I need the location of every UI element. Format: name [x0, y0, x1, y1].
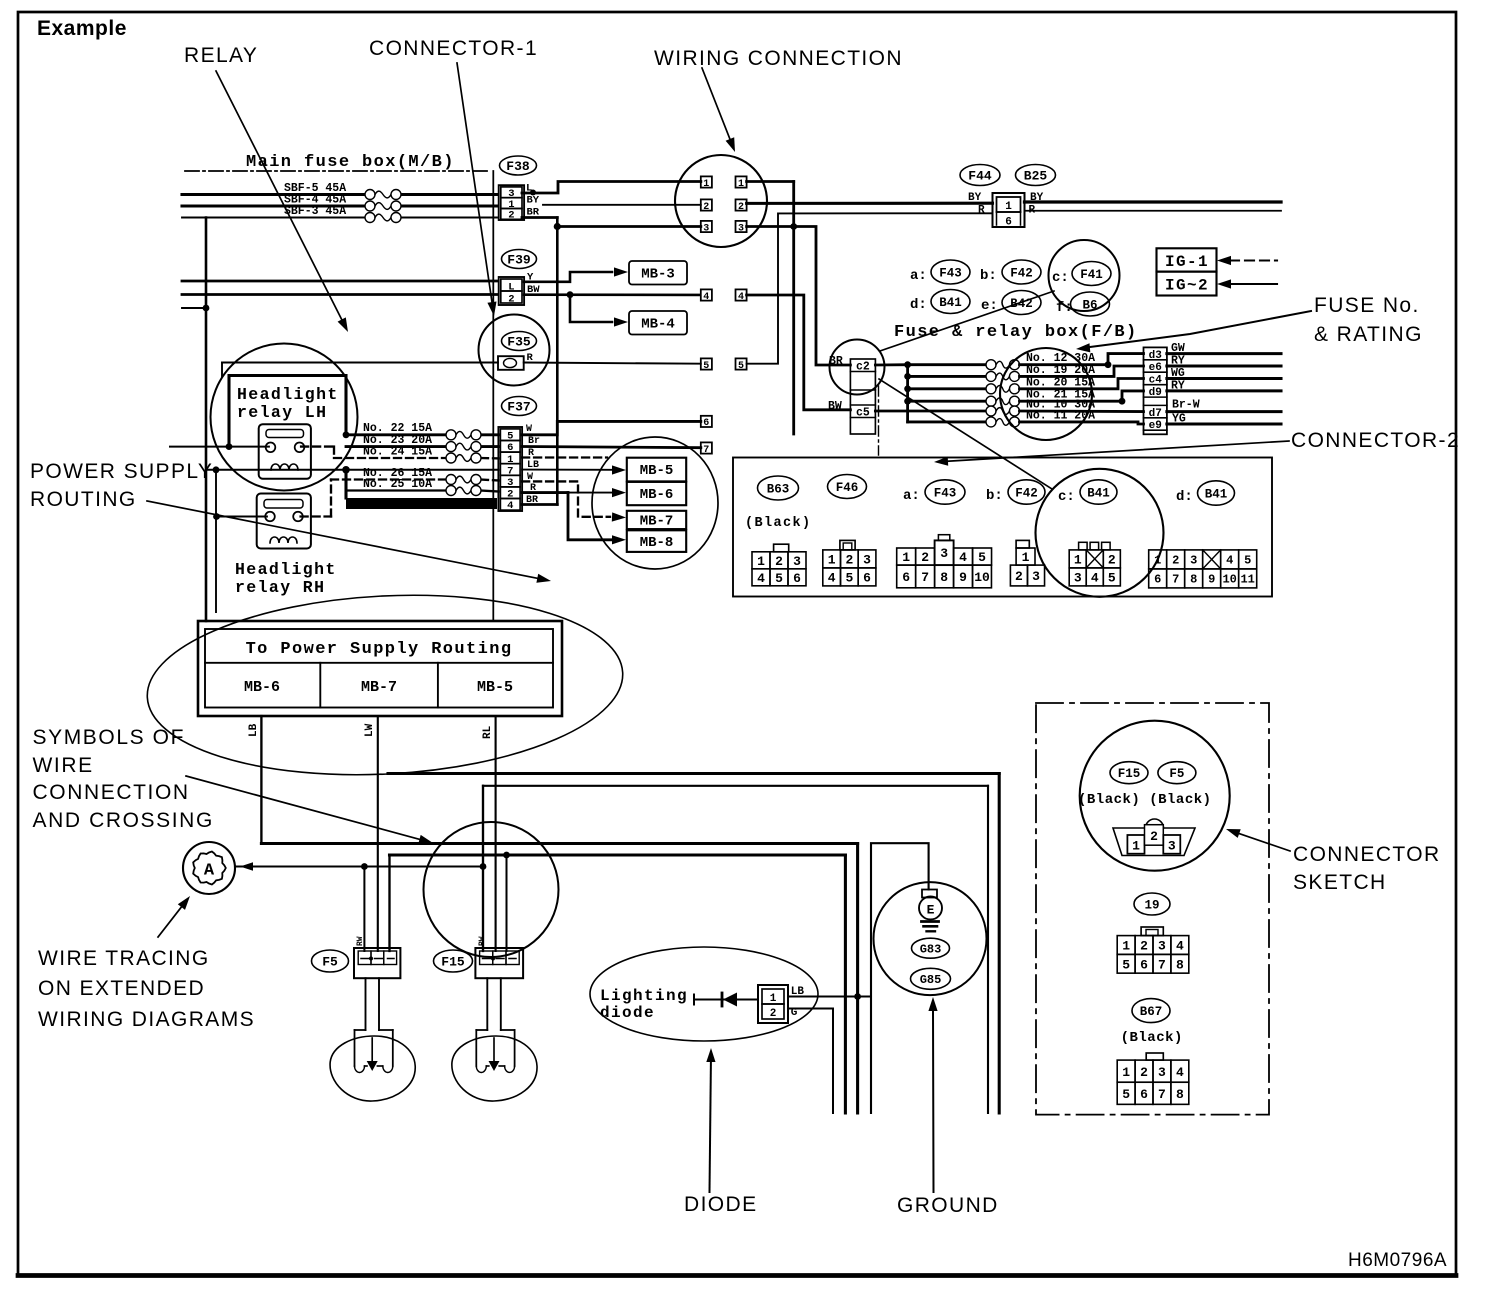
ellipse highlight lighting diode — [590, 947, 818, 1041]
wire row3 right to c2 — [747, 227, 851, 366]
svg-text:F5: F5 — [322, 955, 338, 970]
wire vertical coil feed — [213, 466, 220, 612]
svg-text:MB-3: MB-3 — [641, 267, 675, 283]
svg-text:Br-W: Br-W — [1172, 399, 1200, 412]
wire bus SBF-4 — [182, 204, 497, 207]
svg-text:No. 24 15A: No. 24 15A — [363, 446, 432, 459]
svg-text:4: 4 — [703, 292, 709, 303]
wire line1 — [388, 774, 999, 1114]
circle highlight c2 — [830, 340, 885, 395]
svg-text:1: 1 — [703, 179, 709, 190]
circle highlight connector-1 (F35) — [479, 315, 550, 386]
node box 7 left — [701, 442, 712, 455]
connector column line — [492, 171, 494, 621]
svg-text:5: 5 — [738, 361, 744, 372]
fuse No. 26 15A — [363, 467, 481, 485]
svg-text:6: 6 — [703, 418, 709, 429]
label RELAY — [184, 44, 258, 67]
svg-text:2: 2 — [703, 202, 709, 213]
svg-text:6: 6 — [1140, 957, 1148, 972]
svg-text:3: 3 — [738, 223, 744, 234]
svg-text:2: 2 — [508, 293, 514, 305]
pin diagram B41d — [1149, 550, 1257, 588]
figure number H6M0796A — [1348, 1250, 1447, 1271]
wire c2 to F/B — [875, 363, 907, 366]
svg-text:7: 7 — [703, 445, 709, 456]
wire No.26 row (dashed) — [331, 480, 498, 481]
svg-text:7: 7 — [921, 570, 929, 585]
svg-text:5: 5 — [1122, 957, 1130, 972]
svg-text:3: 3 — [940, 546, 948, 561]
svg-text:Headlight: Headlight — [235, 560, 337, 579]
wire row5 right to R line — [747, 213, 993, 363]
wire line3 — [261, 844, 857, 1114]
svg-text:e6: e6 — [1149, 362, 1162, 374]
connector 19 label — [1134, 893, 1170, 915]
svg-text:F39: F39 — [507, 253, 531, 268]
svg-text:1: 1 — [757, 554, 765, 569]
svg-text:d7: d7 — [1149, 408, 1162, 420]
svg-text:B67: B67 — [1140, 1005, 1163, 1019]
svg-text:1: 1 — [1154, 554, 1161, 568]
pin diagram B41c — [1069, 542, 1120, 586]
box MB-8 — [627, 530, 686, 552]
wire Br-W — [1167, 399, 1281, 412]
wire RL down — [482, 716, 496, 951]
wire pin3 dashed to MB-7 — [522, 481, 626, 521]
svg-text:DIODE: DIODE — [684, 1193, 758, 1216]
svg-text:6: 6 — [1140, 1087, 1148, 1102]
leader arrow WIRE TRACING — [158, 896, 190, 937]
heavy wire bar — [346, 470, 497, 509]
svg-text:AND CROSSING: AND CROSSING — [33, 809, 214, 832]
svg-text:10: 10 — [974, 570, 990, 585]
svg-text:3: 3 — [703, 223, 709, 234]
svg-text:4: 4 — [1091, 571, 1099, 586]
wire row5 left (R) — [524, 363, 701, 364]
pin diagram F46 — [823, 540, 876, 586]
wire line4 — [390, 855, 846, 1113]
svg-text:3: 3 — [1158, 1065, 1166, 1080]
box MB-4 — [629, 311, 687, 335]
circle highlight ground — [874, 882, 987, 995]
svg-text:3: 3 — [863, 553, 871, 568]
svg-text:RELAY: RELAY — [184, 44, 258, 67]
svg-text:WG: WG — [1171, 367, 1185, 380]
svg-text:2: 2 — [1172, 554, 1179, 568]
wire line2 — [483, 786, 988, 1113]
wire row1 left — [522, 182, 701, 196]
circle highlight relay — [211, 344, 358, 491]
fuse SBF-5 45A — [284, 182, 401, 200]
wire to F15 pin3 — [503, 852, 510, 951]
circle highlight c:F41 f:B6 — [1049, 240, 1120, 311]
diode symbol — [694, 993, 758, 1007]
wire No.23 row — [346, 445, 498, 448]
svg-text:RL: RL — [482, 725, 494, 739]
svg-text:WIRE: WIRE — [33, 754, 94, 777]
svg-text:Main fuse box(M/B): Main fuse box(M/B) — [246, 153, 455, 172]
svg-text:SKETCH: SKETCH — [1293, 871, 1387, 894]
svg-text:SBF-3 45A: SBF-3 45A — [284, 205, 346, 218]
wire labels LB G — [791, 986, 805, 1019]
wire fuse row No. 20 15A — [908, 376, 1144, 394]
label Main fuse box (M/B) — [246, 153, 455, 172]
wire relay LH coil row — [206, 466, 350, 474]
svg-text:RW: RW — [356, 936, 365, 946]
F/B feed vertical — [904, 361, 911, 422]
svg-text:2: 2 — [508, 210, 514, 222]
wire row7 left (Br) — [522, 447, 701, 448]
wire relay RH contact right (dashed) — [301, 480, 331, 517]
svg-text:ROUTING: ROUTING — [30, 488, 137, 511]
label CONNECTOR-2 — [1291, 429, 1460, 452]
connector sketch box (dash-dot) — [1036, 703, 1269, 1115]
connector F39 — [499, 250, 537, 306]
label FUSE No. & RATING — [1314, 294, 1423, 346]
svg-text:5: 5 — [775, 571, 783, 586]
pin diagram i9 — [1117, 927, 1189, 973]
pin diagram F43 — [897, 535, 992, 588]
svg-text:1: 1 — [1022, 550, 1030, 565]
connector-2 box — [733, 458, 1272, 597]
svg-text:MB-6: MB-6 — [640, 487, 674, 503]
fuse box 1/6 — [993, 193, 1025, 229]
svg-text:R: R — [978, 205, 985, 217]
wire bus to F39 pin L — [182, 280, 498, 283]
svg-text:WIRE TRACING: WIRE TRACING — [38, 947, 210, 970]
svg-text:4: 4 — [1226, 554, 1233, 568]
svg-text:1: 1 — [1122, 939, 1130, 954]
headlight relay LH outline box — [229, 376, 346, 447]
svg-text:G85: G85 — [920, 973, 942, 987]
node box 2 right — [736, 199, 747, 212]
svg-text:G83: G83 — [920, 943, 942, 957]
svg-text:3: 3 — [793, 554, 801, 569]
svg-text:Fuse & relay box(F/B): Fuse & relay box(F/B) — [894, 323, 1138, 342]
svg-text:(Black) (Black): (Black) (Black) — [1078, 792, 1212, 808]
svg-text:BR: BR — [829, 355, 843, 368]
svg-text:1: 1 — [738, 179, 744, 190]
svg-text:WIRING DIAGRAMS: WIRING DIAGRAMS — [38, 1008, 255, 1031]
connector F15 sketch label — [1110, 762, 1148, 784]
fuse No. 23 20A — [363, 434, 481, 452]
svg-text:F42: F42 — [1010, 267, 1033, 281]
svg-text:F37: F37 — [507, 400, 530, 415]
svg-text:7: 7 — [1172, 573, 1179, 587]
svg-text:3: 3 — [1190, 554, 1197, 568]
label DIODE — [684, 1193, 758, 1216]
wire row1 right — [747, 182, 798, 435]
svg-text:E: E — [927, 903, 935, 918]
svg-text:RY: RY — [1171, 355, 1185, 368]
node box 5 right — [736, 358, 747, 371]
wire bus SBF-5 — [182, 193, 497, 196]
svg-text:5: 5 — [1244, 554, 1251, 568]
svg-text:c4: c4 — [1149, 375, 1163, 387]
wire relay RH contact left — [217, 515, 267, 517]
title Example — [37, 17, 127, 40]
connector c:B41 — [1058, 480, 1117, 505]
link line c2 to connector-2 circle — [879, 379, 1052, 489]
svg-text:H6M0796A: H6M0796A — [1348, 1250, 1447, 1271]
wire coil row to pin 7 — [346, 469, 498, 471]
fuse SBF-3 45A — [284, 205, 401, 223]
circle highlight c:B41 — [1036, 469, 1164, 597]
svg-text:B63: B63 — [767, 483, 790, 497]
connector list d:B41 — [910, 290, 970, 314]
relay LH symbol — [259, 424, 311, 479]
svg-text:1: 1 — [1132, 839, 1140, 854]
connector B25 — [1016, 165, 1056, 186]
svg-text:(Black): (Black) — [745, 516, 812, 531]
wire relay LH contact right (dashed) — [301, 447, 334, 458]
label Headlight relay LH — [237, 385, 339, 422]
svg-text:F46: F46 — [836, 481, 859, 495]
svg-text:1: 1 — [902, 550, 910, 565]
ground G83 — [912, 938, 950, 958]
svg-text:9: 9 — [1208, 573, 1215, 587]
svg-text:SYMBOLS OF: SYMBOLS OF — [33, 726, 186, 749]
svg-text:F43: F43 — [939, 267, 962, 281]
node box 6 left — [701, 416, 712, 429]
svg-text:8: 8 — [1190, 573, 1197, 587]
svg-text:BW: BW — [828, 400, 842, 413]
svg-text:MB-5: MB-5 — [477, 679, 513, 696]
label Lighting diode — [600, 987, 688, 1022]
svg-text:4: 4 — [1176, 939, 1184, 954]
leader arrow CONNECTOR SKETCH — [1226, 829, 1290, 851]
svg-text:Lighting: Lighting — [600, 987, 688, 1005]
wire No.24 row (dashed) — [334, 457, 498, 460]
label SYMBOLS OF WIRE CONNECTION AND CROSSING — [33, 726, 214, 832]
svg-text:POWER SUPPLY: POWER SUPPLY — [30, 460, 213, 483]
svg-text:F35: F35 — [507, 335, 531, 350]
svg-text:1: 1 — [1005, 201, 1012, 213]
svg-text:5: 5 — [703, 361, 709, 372]
svg-text:6: 6 — [793, 571, 801, 586]
wire labels BR BW — [828, 355, 843, 413]
svg-text:4: 4 — [757, 571, 765, 586]
connector b:F42 — [986, 480, 1045, 504]
svg-text:B41: B41 — [939, 296, 962, 310]
wire diode G — [788, 1009, 833, 1114]
svg-text:1: 1 — [828, 553, 836, 568]
pin diagram B63 — [752, 544, 806, 586]
leader arrow GROUND — [928, 997, 937, 1192]
svg-text:GW: GW — [1171, 342, 1185, 355]
connector list f:B6 — [1056, 292, 1110, 316]
svg-text:d9: d9 — [1149, 387, 1162, 399]
svg-text:5: 5 — [845, 571, 853, 586]
fuse No. 25 10A — [363, 478, 481, 496]
svg-text:WIRING CONNECTION: WIRING CONNECTION — [654, 47, 903, 70]
svg-text:c5: c5 — [856, 407, 870, 420]
svg-text:2: 2 — [1015, 569, 1023, 584]
node box 1 right — [736, 176, 747, 189]
wire vertical left bus — [205, 218, 208, 622]
wire vertical BR net — [556, 218, 559, 505]
link line F41 to c2 — [880, 291, 1054, 351]
connector F37 — [498, 397, 536, 513]
wire R bus right — [1025, 210, 1282, 212]
connector F38 — [499, 156, 537, 222]
label CONNECTOR-1 — [369, 37, 538, 60]
ground bars — [922, 922, 939, 932]
connector F46 — [828, 475, 867, 499]
svg-text:MB-7: MB-7 — [361, 679, 397, 696]
F/B boundary dash — [878, 386, 880, 455]
svg-text:IG-1: IG-1 — [1165, 253, 1209, 271]
svg-text:relay LH: relay LH — [237, 403, 327, 422]
leader arrow RELAY — [216, 71, 348, 332]
wire relay LH contact left — [170, 443, 269, 450]
connector d:B41 — [1176, 481, 1235, 505]
wire c5 to F/B No.10 — [875, 410, 986, 413]
connector list b:F42 — [980, 260, 1041, 284]
svg-text:a:: a: — [910, 268, 927, 284]
wire row2 left — [543, 204, 701, 206]
wire fuse row No. 12 30A — [908, 352, 1144, 370]
wire pin4 row — [522, 503, 557, 506]
svg-text:1: 1 — [1074, 553, 1082, 568]
wire labels L BY BR — [526, 183, 540, 219]
svg-text:b:: b: — [980, 268, 997, 284]
svg-text:c:: c: — [1058, 489, 1075, 505]
svg-text:To Power Supply Routing: To Power Supply Routing — [246, 640, 513, 659]
svg-text:6: 6 — [1154, 573, 1161, 587]
pin diagram B67 — [1117, 1053, 1189, 1104]
svg-text:ON EXTENDED: ON EXTENDED — [38, 977, 205, 1000]
svg-text:F43: F43 — [934, 487, 957, 501]
svg-text:4: 4 — [1176, 1065, 1184, 1080]
svg-text:d3: d3 — [1149, 350, 1163, 362]
svg-text:2: 2 — [738, 202, 744, 213]
circle highlight wire crossing — [424, 822, 559, 957]
frame bottom emphasis — [18, 1273, 1456, 1278]
svg-text:9: 9 — [959, 570, 967, 585]
svg-text:e9: e9 — [1149, 420, 1162, 432]
svg-text:F15: F15 — [1118, 767, 1141, 781]
svg-text:MB-8: MB-8 — [640, 535, 674, 551]
svg-text:5: 5 — [1122, 1087, 1130, 1102]
leader arrow FUSE No. — [1076, 311, 1311, 352]
label CONNECTOR SKETCH — [1293, 843, 1441, 894]
svg-text:10: 10 — [1222, 573, 1236, 587]
wire GW — [1167, 342, 1281, 355]
svg-text:MB-5: MB-5 — [640, 463, 674, 479]
fuse No. 22 15A — [363, 422, 481, 440]
svg-text:Example: Example — [37, 17, 127, 40]
ellipse highlight power supply routing — [143, 584, 628, 787]
circle highlight wiring connection — [675, 155, 767, 247]
svg-text:Headlight: Headlight — [237, 385, 339, 404]
svg-text:19: 19 — [1144, 899, 1159, 913]
svg-text:a:: a: — [903, 488, 920, 504]
node box 4 left — [701, 289, 712, 302]
wire labels Y BW — [527, 272, 540, 297]
wire RY — [1167, 355, 1281, 368]
svg-text:1: 1 — [1122, 1065, 1130, 1080]
connector strip c2/c5 — [850, 359, 875, 434]
node box 5 left — [701, 358, 712, 371]
svg-text:4: 4 — [738, 292, 744, 303]
label Fuse & relay box (F/B) — [894, 323, 1138, 342]
box MB-7 — [627, 511, 686, 530]
svg-text:b:: b: — [986, 488, 1003, 504]
wire label R — [527, 352, 534, 364]
node box 4 right — [736, 289, 747, 302]
relay RH symbol — [257, 494, 311, 549]
wire R row — [222, 363, 498, 378]
connector list c:F41 — [1052, 262, 1111, 287]
svg-text:11: 11 — [1240, 573, 1254, 587]
svg-text:d:: d: — [1176, 489, 1193, 505]
node A wire-tracing symbol — [183, 842, 235, 894]
leader arrow POWER SUPPLY ROUTING — [147, 501, 551, 583]
connector diode 1/2 — [758, 985, 788, 1023]
svg-text:BY: BY — [527, 195, 540, 207]
leader arrow WIRING CONNECTION — [702, 68, 735, 152]
lamp headlight F5 — [330, 978, 415, 1101]
svg-text:6: 6 — [902, 570, 910, 585]
wire stub with junction — [182, 305, 209, 312]
connector F35 — [498, 332, 537, 370]
connector F5 — [312, 936, 401, 978]
wire ground link — [871, 843, 929, 1113]
svg-text:d:: d: — [910, 297, 927, 313]
svg-text:MB-6: MB-6 — [244, 679, 280, 696]
svg-text:F44: F44 — [968, 169, 992, 184]
svg-text:3: 3 — [1168, 839, 1176, 854]
wire No.22 row — [343, 431, 499, 438]
leader arrow DIODE — [706, 1048, 715, 1192]
wire dashed arrow to IG-1 — [1217, 256, 1277, 265]
wire bus to F39 pin 2 — [182, 293, 498, 296]
svg-text:LW: LW — [364, 723, 376, 737]
wire to F5 pin1 — [363, 867, 365, 952]
svg-text:LB: LB — [248, 723, 260, 737]
connector F5 sketch label — [1158, 762, 1196, 784]
svg-text:4: 4 — [507, 500, 513, 512]
label WIRING CONNECTION — [654, 47, 903, 70]
box To Power Supply Routing — [198, 621, 562, 716]
svg-text:2: 2 — [775, 554, 783, 569]
box MB-6 — [627, 482, 686, 505]
wire A line — [236, 862, 486, 870]
svg-text:5: 5 — [978, 550, 986, 565]
svg-text:(Black): (Black) — [1121, 1030, 1183, 1046]
svg-text:No. 25 10A: No. 25 10A — [363, 478, 432, 491]
label (Black) — [1121, 1030, 1183, 1046]
svg-text:3: 3 — [1074, 571, 1082, 586]
svg-text:2: 2 — [1108, 553, 1116, 568]
wire pin7 to MB-5 — [522, 465, 626, 474]
svg-text:4: 4 — [828, 571, 836, 586]
svg-text:7: 7 — [1158, 1087, 1166, 1102]
svg-text:YG: YG — [1172, 413, 1186, 426]
svg-text:relay RH: relay RH — [235, 578, 325, 597]
connector B67 label — [1132, 999, 1170, 1023]
svg-text:B25: B25 — [1024, 169, 1048, 184]
wire WG — [1167, 367, 1281, 380]
svg-text:CONNECTOR: CONNECTOR — [1293, 843, 1441, 866]
svg-text:RW: RW — [478, 936, 487, 946]
svg-text:F5: F5 — [1169, 767, 1184, 781]
wire BY bus right — [1025, 200, 1282, 203]
svg-text:& RATING: & RATING — [1314, 323, 1423, 346]
fuse SBF-4 45A — [284, 194, 401, 212]
